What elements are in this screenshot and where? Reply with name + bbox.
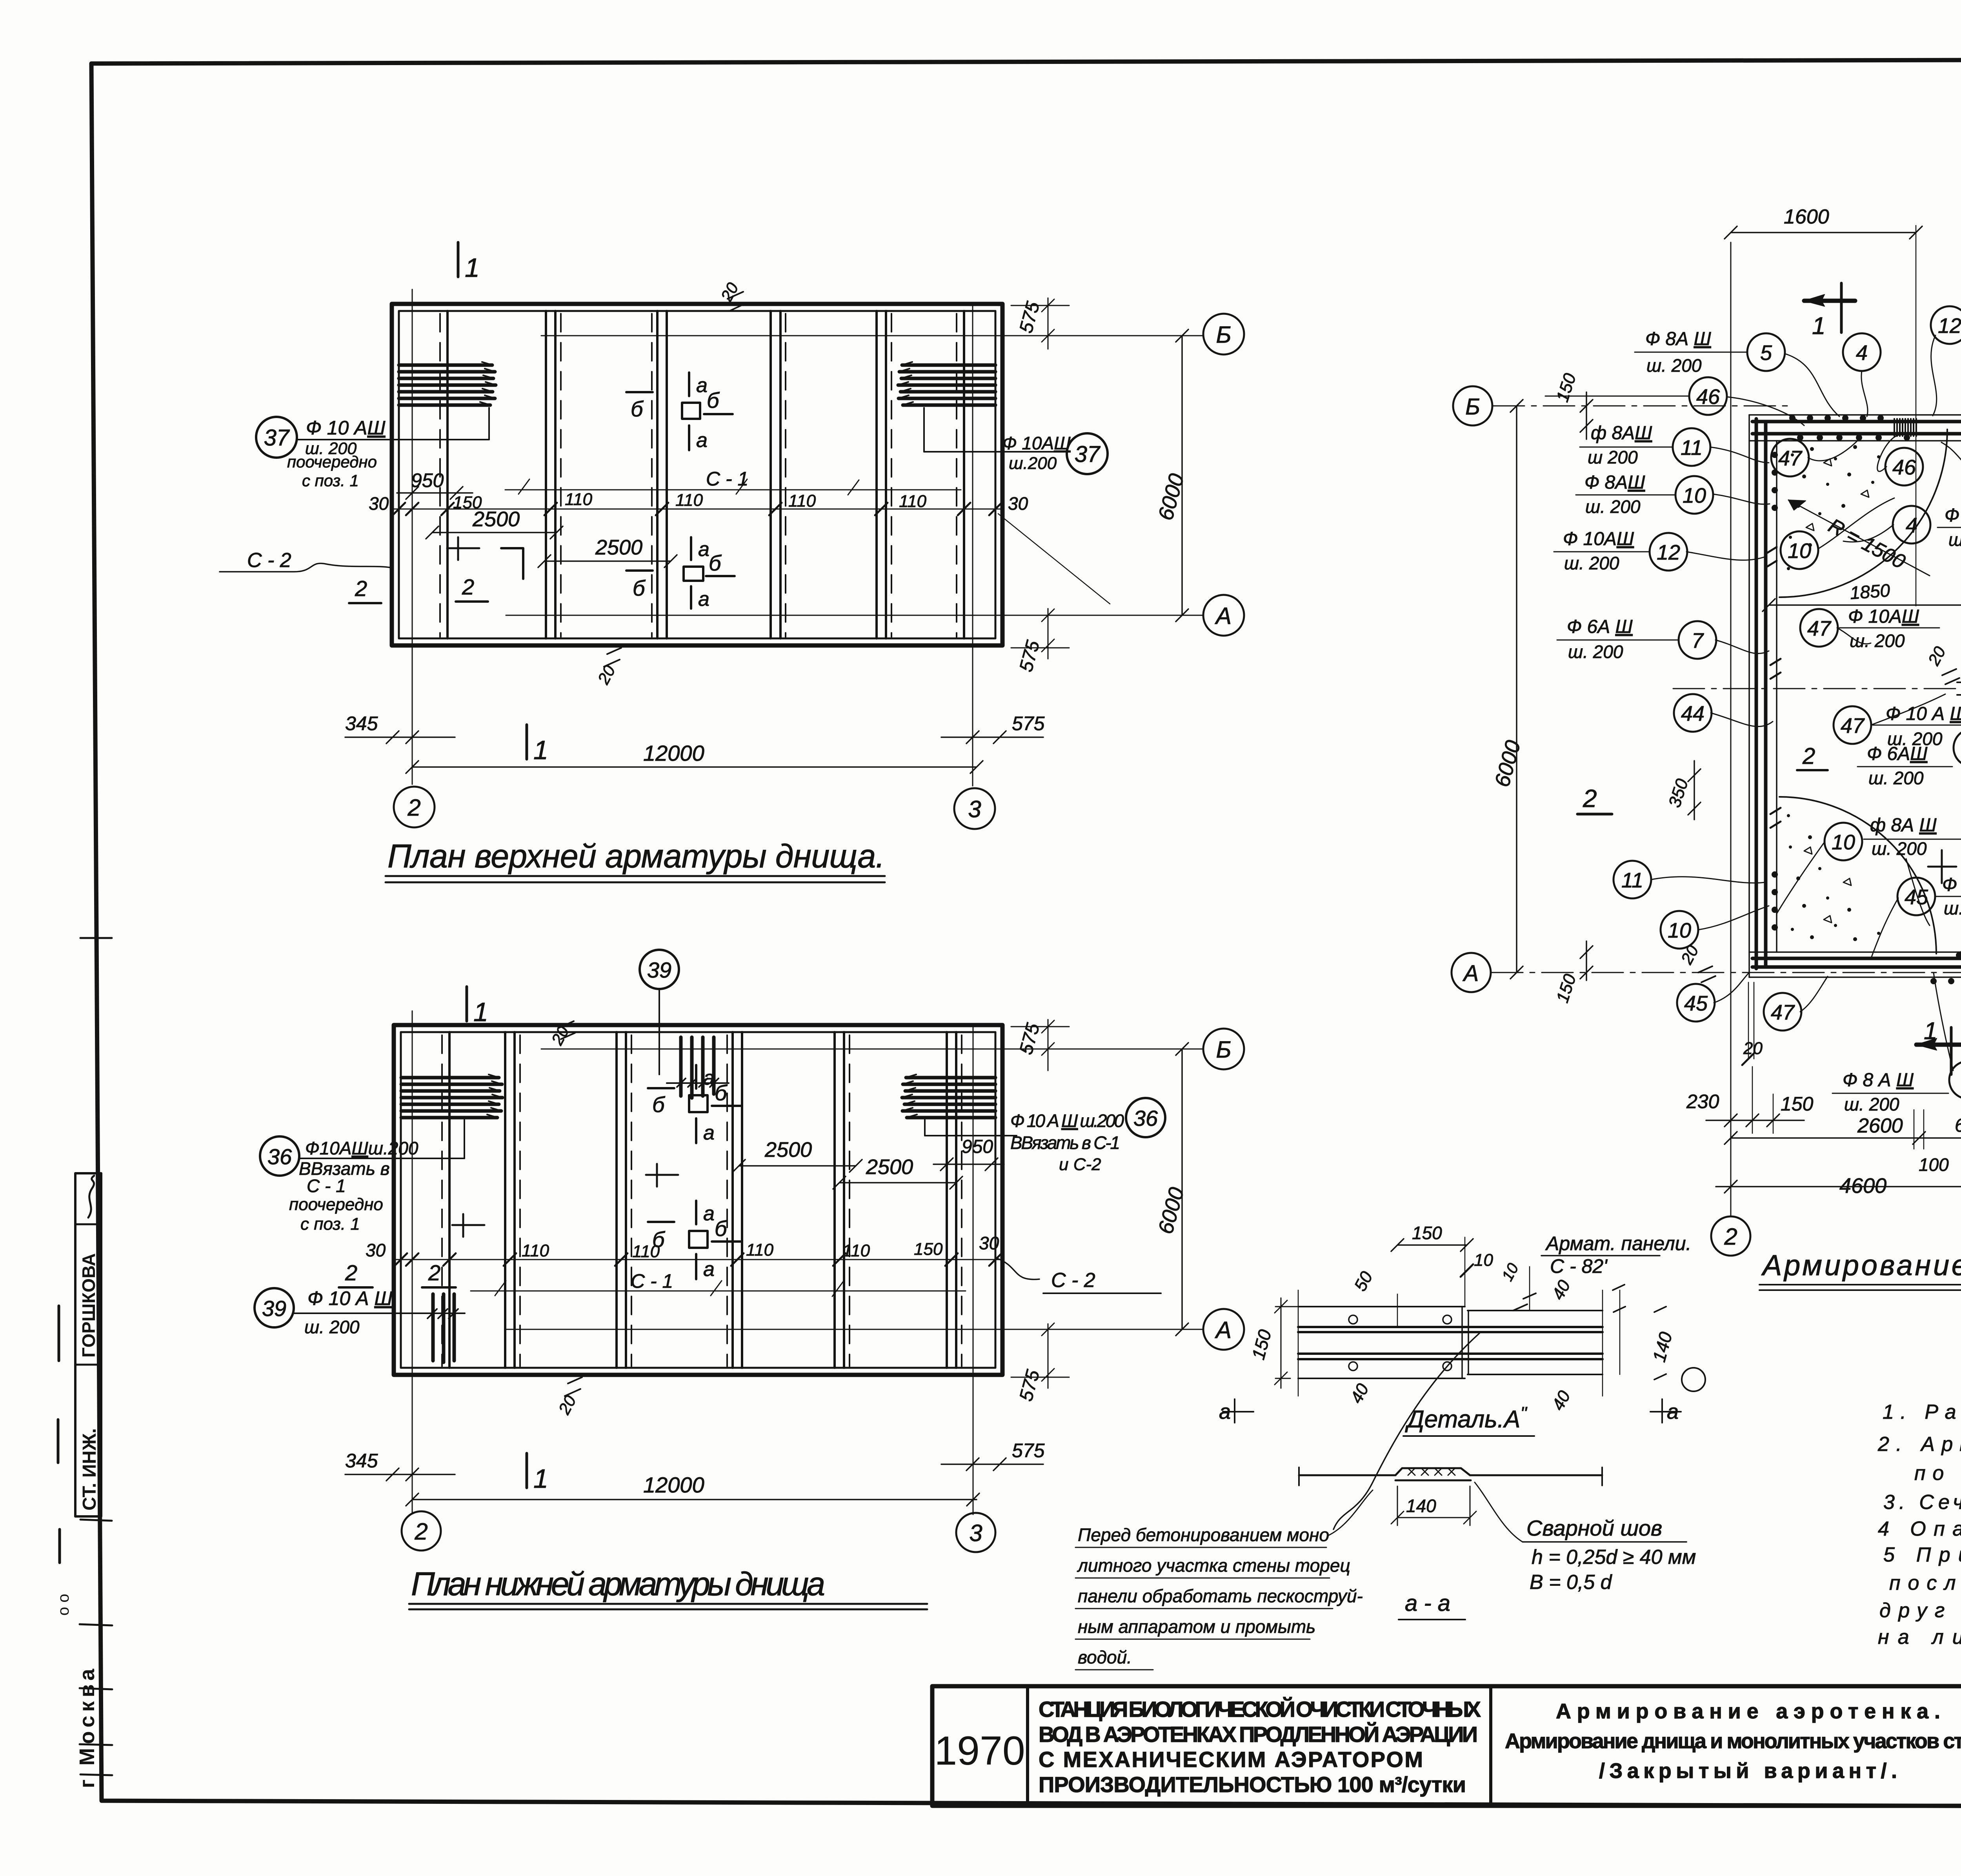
svg-text:150: 150 — [914, 1240, 943, 1259]
upper plan inner rect — [399, 311, 995, 638]
svg-text:600: 600 — [1955, 1115, 1961, 1136]
stipple triangles top — [1806, 459, 1869, 531]
svg-text:Б: Б — [1216, 1036, 1231, 1063]
svg-text:39: 39 — [647, 958, 671, 982]
svg-text:4: 4 — [1906, 514, 1917, 537]
a-a end ticks — [1299, 1467, 1602, 1485]
corner arc bottom — [1779, 797, 1936, 954]
axis A dashdot line corner — [1492, 972, 1961, 973]
svg-text:а: а — [698, 538, 709, 561]
svg-text:47: 47 — [1807, 617, 1832, 640]
border tick marks — [80, 937, 112, 939]
svg-text:950: 950 — [962, 1136, 993, 1157]
square symbol lower top — [689, 1095, 708, 1112]
callout circle 47 corner — [1771, 439, 1809, 476]
svg-text:4: 4 — [1856, 341, 1868, 365]
b marks around top square — [626, 391, 653, 393]
svg-text:7: 7 — [1692, 629, 1704, 653]
axis circle 3 upper — [954, 788, 995, 829]
svg-text:Ф 8АШ: Ф 8АШ — [1584, 472, 1645, 493]
svg-text:1: 1 — [533, 1464, 548, 1494]
svg-text:110: 110 — [899, 492, 927, 511]
title block outer — [932, 1686, 1961, 1806]
callout circle 39 left — [255, 1288, 294, 1327]
svg-text:110: 110 — [522, 1241, 549, 1260]
svg-text:ш 200: ш 200 — [1588, 447, 1638, 467]
svg-text:30: 30 — [979, 1233, 999, 1253]
stamp side marks — [58, 1306, 60, 1563]
bottom wall faces — [1749, 952, 1961, 977]
svg-text:С - 1: С - 1 — [631, 1270, 673, 1292]
callout circle 36 right — [1126, 1098, 1165, 1137]
svg-text:230: 230 — [1686, 1091, 1719, 1113]
leader 46 left — [1545, 396, 1689, 397]
svg-text:и С-2: и С-2 — [1059, 1155, 1101, 1174]
a-a seam bump — [1395, 1468, 1470, 1475]
small circle right detail — [1682, 1368, 1705, 1391]
axis circle B lower — [1203, 1029, 1244, 1069]
cross mark middle lower plan — [646, 1164, 678, 1187]
svg-text:46: 46 — [1696, 385, 1720, 409]
axis circle 2 upper — [394, 787, 435, 827]
panel joint verticals upper — [448, 311, 964, 638]
svg-text:А: А — [1215, 603, 1232, 629]
callout circle 7 left — [1679, 621, 1716, 659]
svg-text:12000: 12000 — [643, 741, 704, 765]
corner bracket symbol upper plan — [501, 548, 523, 579]
axis circle A lower — [1203, 1309, 1244, 1350]
callout circle 37 right — [1067, 433, 1108, 474]
svg-text:2: 2 — [428, 1260, 440, 1285]
callout circle 11 left — [1673, 428, 1710, 466]
cross mark above bottom wall — [1928, 850, 1956, 883]
axis A circle corner — [1452, 953, 1491, 992]
svg-text:Ф 8А Ш: Ф 8А Ш — [1645, 329, 1712, 349]
svg-text:ш. 200: ш. 200 — [1646, 355, 1702, 376]
R=1500 radial line — [1788, 500, 1930, 576]
svg-text:45: 45 — [1905, 885, 1928, 909]
axis circle 3 lower — [956, 1513, 995, 1552]
detail A witness lines — [1298, 1237, 1620, 1396]
stamp signature — [88, 1176, 94, 1218]
svg-text:Ф 6АШ: Ф 6АШ — [1867, 743, 1928, 764]
section mark 1 bottom upper plan — [526, 725, 528, 759]
svg-text:110: 110 — [746, 1240, 774, 1260]
callout circle 45 bottom left — [1677, 984, 1715, 1022]
axis 2 line lower — [412, 1011, 413, 1513]
svg-text:30: 30 — [369, 493, 389, 514]
svg-text:Ф 8 А Ш: Ф 8 А Ш — [1843, 1070, 1914, 1091]
dim chain upper plan — [394, 509, 1000, 510]
svg-text:Ф 8 А Ш: Ф 8 А Ш — [1945, 505, 1961, 526]
callout circle 44 left — [1674, 694, 1712, 732]
right hatch arrows — [898, 362, 913, 405]
lower plan outer rect — [394, 1025, 1002, 1375]
svg-text:Ф 6А Ш: Ф 6А Ш — [1567, 616, 1633, 637]
bottom-left bars group lower plan — [433, 1294, 454, 1362]
svg-text:2: 2 — [462, 574, 474, 599]
callout circle 46 inner — [1885, 448, 1923, 485]
svg-text:11: 11 — [1621, 869, 1643, 892]
svg-text:ГОРШКОВА: ГОРШКОВА — [78, 1253, 99, 1358]
callout circle 12 left — [1650, 533, 1687, 571]
b marks around lower-bottom square — [648, 1221, 674, 1223]
svg-text:3: 3 — [968, 796, 981, 822]
svg-text:/Закрытый вариант/.: /Закрытый вариант/. — [1599, 1759, 1897, 1783]
svg-text:СТ. ИНЖ.: СТ. ИНЖ. — [79, 1428, 100, 1511]
left hatch bars lower plan — [401, 1078, 502, 1118]
right hatch callout box lower — [925, 1120, 1017, 1136]
axis 3 line lower — [973, 1025, 974, 1514]
svg-text:а: а — [703, 1202, 715, 1225]
dim 1850 3130 — [1763, 599, 1961, 611]
dim 12000 lower — [406, 1493, 979, 1506]
b marks around bottom square — [626, 569, 653, 572]
section 2 mark inside lower plan — [452, 1214, 484, 1237]
svg-text:12: 12 — [1938, 314, 1961, 338]
svg-text:575: 575 — [1012, 713, 1045, 734]
leader 39 top — [659, 989, 660, 1074]
svg-text:2: 2 — [355, 576, 367, 601]
svg-text:В = 0,5 d: В = 0,5 d — [1530, 1571, 1613, 1594]
svg-text:110: 110 — [788, 491, 816, 511]
svg-text:2500: 2500 — [866, 1155, 913, 1179]
callout circle 47 c + text — [1834, 706, 1871, 744]
top bars ticks — [667, 1078, 729, 1087]
detail A small circles — [1349, 1315, 1357, 1324]
svg-text:ВОД В АЭРОТЕНКАХ ПРОДЛЕННОЙ АЭ: ВОД В АЭРОТЕНКАХ ПРОДЛЕННОЙ АЭРАЦИИ — [1039, 1722, 1478, 1747]
svg-text:А: А — [1215, 1317, 1232, 1343]
callout circle 10 bottom left — [1661, 911, 1698, 949]
svg-text:а: а — [696, 429, 708, 452]
leader 36 left — [299, 1158, 464, 1159]
left hatch callout box lower — [299, 1120, 464, 1158]
left hatch arrows lower — [487, 1074, 502, 1118]
svg-text:1850: 1850 — [1849, 580, 1891, 603]
svg-text:45: 45 — [1684, 992, 1708, 1015]
svg-text:37: 37 — [1075, 442, 1101, 467]
svg-text:б: б — [652, 1092, 666, 1117]
svg-text:11: 11 — [1681, 436, 1703, 460]
svg-text:а: а — [1219, 1400, 1231, 1423]
svg-text:30: 30 — [366, 1240, 386, 1260]
svg-text:С - 1: С - 1 — [706, 468, 748, 490]
svg-text:Ф 10АШ: Ф 10АШ — [1848, 606, 1919, 627]
callout circle 10 left — [1675, 476, 1713, 514]
bottom leaders corner plan — [1651, 843, 1961, 1071]
svg-text:б: б — [652, 1227, 666, 1252]
callout circle 47 bottom — [1764, 993, 1801, 1031]
svg-text:о о: о о — [55, 1594, 72, 1616]
svg-text:с поз. 1: с поз. 1 — [300, 1214, 360, 1234]
svg-text:1: 1 — [473, 997, 488, 1027]
axis circle 2 lower — [402, 1511, 441, 1551]
section arrow 1 top — [1804, 299, 1855, 303]
callout circle 10 inner — [1781, 531, 1818, 569]
svg-text:1: 1 — [1924, 1018, 1937, 1045]
callout circle 5 — [1747, 333, 1785, 371]
right hatch callout box — [924, 408, 1067, 452]
svg-text:46: 46 — [1892, 456, 1916, 479]
title block dividers — [1028, 1686, 1961, 1806]
svg-text:Ф 10 А Ш: Ф 10 А Ш — [1886, 703, 1961, 724]
section mark 1 top upper plan — [457, 242, 460, 277]
svg-text:План верхней арматуры днища.: План верхней арматуры днища. — [387, 838, 885, 874]
witness line right of 1600 — [1916, 225, 1917, 606]
svg-text:ш. 200: ш. 200 — [1844, 1094, 1899, 1114]
corner arc top — [1779, 429, 1947, 597]
svg-text:10: 10 — [1474, 1251, 1493, 1270]
svg-text:с поз. 1: с поз. 1 — [302, 471, 359, 490]
top middle bars group lower plan — [681, 1037, 714, 1098]
axis 2 line upper — [412, 289, 413, 784]
svg-text:ш.200: ш.200 — [1009, 454, 1057, 473]
svg-text:С - 2: С - 2 — [247, 549, 291, 572]
svg-text:30: 30 — [1008, 493, 1028, 514]
dim 6000 upper — [1176, 329, 1188, 622]
C-1 line lower — [471, 1281, 966, 1296]
top wall rebar dots row2 — [1797, 434, 1910, 441]
axis line B upper — [541, 335, 1203, 336]
a-a main line — [1299, 1474, 1602, 1476]
svg-text:Ф 10АШ: Ф 10АШ — [1942, 874, 1961, 895]
svg-text:СТАНЦИЯ БИОЛОГИЧЕСКОЙ ОЧИСТКИ: СТАНЦИЯ БИОЛОГИЧЕСКОЙ ОЧИСТКИ СТОЧНЫХ — [1039, 1697, 1481, 1721]
svg-text:а: а — [696, 374, 708, 397]
callout circle 4 bottom + text — [1949, 1061, 1961, 1099]
svg-text:2: 2 — [414, 1518, 427, 1545]
svg-text:1: 1 — [1812, 313, 1825, 340]
svg-text:Ф 10АШ: Ф 10АШ — [1563, 529, 1634, 549]
svg-text:ш. 200: ш. 200 — [304, 1317, 360, 1337]
svg-text:ВВязать в С-1: ВВязать в С-1 — [1010, 1133, 1120, 1153]
concrete stipple bottom corner — [1787, 814, 1880, 941]
callout circle 47 b + text — [1800, 609, 1838, 647]
axis 3 line upper — [972, 304, 973, 786]
svg-text:Б: Б — [1465, 394, 1480, 420]
svg-text:Перед бетонированием моно: Перед бетонированием моно — [1078, 1525, 1329, 1545]
dim 150 top detail — [1391, 1239, 1473, 1251]
dashed joint lines lower — [442, 1035, 962, 1366]
C-2 snake lower — [996, 1258, 1039, 1280]
svg-text:2500: 2500 — [472, 507, 520, 531]
svg-text:2500: 2500 — [764, 1138, 812, 1162]
bottom wall rebar dots row1 — [1956, 952, 1961, 958]
callout circle 39 top — [640, 950, 679, 989]
right hatch bars lower plan — [902, 1078, 995, 1118]
callout circle 11 bottom — [1614, 861, 1651, 898]
svg-text:10: 10 — [1788, 539, 1811, 563]
svg-text:а - а: а - а — [1405, 1591, 1450, 1616]
C-1 line upper — [505, 479, 961, 495]
svg-text:950: 950 — [411, 469, 444, 491]
svg-text:110: 110 — [675, 491, 703, 510]
svg-text:ш. 200: ш. 200 — [1850, 631, 1905, 651]
svg-text:1: 1 — [533, 735, 548, 765]
square symbol lower bottom — [689, 1231, 708, 1248]
svg-text:Ф 10 АШ: Ф 10 АШ — [306, 417, 386, 439]
svg-text:2: 2 — [1724, 1223, 1737, 1250]
svg-text:37: 37 — [264, 425, 290, 451]
svg-text:а: а — [703, 1122, 715, 1144]
svg-text:литного участка стены торец: литного участка стены торец — [1077, 1555, 1350, 1576]
left wall rebar dots — [1772, 452, 1778, 931]
svg-text:С - 2: С - 2 — [1051, 1269, 1095, 1292]
svg-text:10: 10 — [1683, 484, 1706, 507]
svg-text:Ф 10 А Ш: Ф 10 А Ш — [307, 1287, 393, 1309]
svg-text:2: 2 — [1583, 784, 1597, 813]
svg-text:36: 36 — [1133, 1106, 1158, 1131]
svg-text:140: 140 — [1406, 1496, 1436, 1516]
svg-text:Сварной шов: Сварной шов — [1526, 1516, 1662, 1540]
svg-text:б: б — [631, 396, 644, 421]
svg-text:г Москва: г Москва — [75, 1665, 99, 1788]
svg-text:4600: 4600 — [1839, 1174, 1886, 1198]
svg-text:575: 575 — [1012, 1440, 1045, 1462]
svg-text:Деталь.А": Деталь.А" — [1405, 1403, 1528, 1433]
svg-text:ПРОИЗВОДИТЕЛЬНОСТЬЮ 100 м³/сут: ПРОИЗВОДИТЕЛЬНОСТЬЮ 100 м³/сутки — [1039, 1772, 1466, 1797]
svg-text:2: 2 — [345, 1260, 357, 1285]
right hatch arrows lower — [902, 1074, 917, 1118]
detail A assembly outer lines — [1298, 1307, 1465, 1378]
callout circle 10 bottom mid + text — [1825, 823, 1862, 860]
square symbol upper bottom — [684, 567, 703, 581]
long S leader from detail — [1333, 1333, 1479, 1529]
section mark 1 top lower plan — [466, 987, 468, 1021]
callout circle 45 mid + text — [1897, 878, 1935, 915]
top wall bars — [1752, 422, 1961, 434]
callout circle 46 left — [1689, 377, 1727, 415]
axis circle 2 corner — [1711, 1216, 1750, 1256]
svg-text:110: 110 — [565, 490, 593, 509]
left wall bars — [1756, 419, 1766, 969]
svg-text:47: 47 — [1771, 1001, 1795, 1024]
callout circle 37 left — [256, 417, 297, 458]
svg-text:1970: 1970 — [934, 1728, 1025, 1774]
leader wiggles top callouts — [1686, 335, 1961, 751]
mid element dashdot axis — [1673, 688, 1961, 689]
witness verticals bottom dims — [1752, 1067, 1773, 1133]
bottom bars ticks — [427, 1309, 458, 1318]
svg-text:С - 82': С - 82' — [1550, 1255, 1608, 1277]
svg-text:План нижней арматуры днища: План нижней арматуры днища — [411, 1565, 825, 1602]
callout circle 8 b + text — [1954, 729, 1961, 767]
svg-text:С - 1: С - 1 — [307, 1176, 346, 1196]
svg-text:345: 345 — [345, 713, 378, 734]
svg-text:Б: Б — [1216, 322, 1231, 348]
panel joint verticals lower — [449, 1032, 956, 1368]
svg-text:1600: 1600 — [1784, 205, 1829, 228]
svg-text:ным аппаратом и промыть: ным аппаратом и промыть — [1078, 1616, 1315, 1637]
dim 1600 top — [1725, 226, 1922, 239]
upper plan outer rect — [392, 304, 1002, 645]
svg-text:1: 1 — [465, 253, 480, 283]
svg-text:б: б — [715, 1080, 728, 1105]
a section marks detail — [1223, 1399, 1253, 1423]
top wall rebar dots row1 — [1789, 415, 1884, 421]
svg-text:б: б — [707, 388, 720, 413]
svg-text:поочередно: поочередно — [287, 453, 377, 471]
left hatch bars upper plan — [399, 365, 496, 405]
svg-text:2600: 2600 — [1857, 1114, 1903, 1137]
svg-text:панели обработать пескоструй-: панели обработать пескоструй- — [1078, 1586, 1363, 1606]
svg-text:36: 36 — [267, 1144, 292, 1169]
dim 350 left — [1688, 761, 1701, 820]
detail A mid joint — [1462, 1307, 1468, 1378]
axis circle B upper — [1203, 314, 1244, 354]
weld x marks — [1408, 1468, 1455, 1475]
svg-text:39: 39 — [262, 1296, 286, 1321]
svg-text:ш. 200: ш. 200 — [1585, 496, 1641, 517]
mid element PK1-24-1 lines — [1957, 682, 1961, 695]
leader svarnoy — [1475, 1482, 1523, 1542]
left wall faces — [1749, 415, 1777, 977]
section mark 1 bottom lower plan — [526, 1453, 528, 1488]
section 2 mark inside upper plan — [447, 537, 479, 560]
svg-text:ш. 200: ш. 200 — [1944, 898, 1961, 918]
svg-text:47: 47 — [1778, 447, 1803, 470]
right hatch bars upper plan — [898, 365, 995, 405]
axis B dashdot line corner — [1493, 405, 1788, 407]
svg-text:ш. 200: ш. 200 — [1868, 768, 1924, 788]
concrete stipple top corner — [1787, 445, 1880, 570]
svg-text:12000: 12000 — [643, 1472, 704, 1497]
svg-text:2: 2 — [407, 794, 420, 821]
svg-text:а: а — [698, 588, 709, 611]
left wall arrow ticks — [1766, 547, 1781, 828]
svg-text:Ф 10 А Ш ш.200: Ф 10 А Ш ш.200 — [1010, 1111, 1124, 1131]
svg-text:47: 47 — [1841, 714, 1865, 738]
axis line A lower — [506, 1329, 1203, 1330]
svg-text:б: б — [709, 551, 722, 575]
20 label bottom wall left — [1748, 982, 1754, 1059]
top wall panel hatch — [1894, 419, 1916, 436]
svg-text:100: 100 — [1919, 1154, 1949, 1175]
leader from note to weld — [1328, 1490, 1373, 1536]
svg-text:110: 110 — [842, 1241, 870, 1260]
callout circle 12 top — [1931, 306, 1961, 344]
square symbol upper top — [682, 403, 700, 419]
axis 2 vertical corner plan — [1730, 242, 1732, 1216]
svg-text:10: 10 — [1668, 919, 1691, 942]
svg-text:ш. 200: ш. 200 — [1568, 642, 1623, 662]
svg-text:5: 5 — [1760, 341, 1772, 365]
stamp box left edge — [75, 1173, 101, 1516]
bottom wall bars — [1752, 958, 1961, 967]
dashed joint lines upper — [440, 314, 957, 637]
svg-text:а: а — [1667, 1400, 1679, 1423]
dim 4600 — [1716, 1180, 1961, 1193]
svg-text:20: 20 — [1743, 1039, 1763, 1058]
svg-text:ф 8АШ: ф 8АШ — [1591, 423, 1652, 444]
svg-text:Армат. панели.: Армат. панели. — [1545, 1232, 1691, 1254]
bottom wall rebar dots row2 — [1930, 978, 1961, 984]
svg-text:12: 12 — [1657, 541, 1680, 564]
svg-text:ш. 200: ш. 200 — [1872, 838, 1927, 859]
section arrow 1 bottom — [1916, 1043, 1961, 1047]
leader from 30 tick — [998, 514, 1110, 604]
svg-text:150: 150 — [1781, 1093, 1814, 1115]
stipple triangles bottom — [1804, 847, 1851, 923]
svg-text:Армирование днища и монолит: Армирование днища и монолитных участков … — [1505, 1729, 1961, 1753]
callout circle 36 left — [260, 1136, 299, 1176]
top wall faces — [1749, 415, 1961, 441]
svg-text:водой.: водой. — [1078, 1647, 1132, 1667]
callout circle 4 top — [1843, 333, 1881, 371]
svg-text:150: 150 — [1412, 1223, 1442, 1243]
svg-text:Ф10АШш.200: Ф10АШш.200 — [305, 1138, 418, 1158]
svg-text:10: 10 — [1832, 831, 1855, 854]
lower plan inner rect — [401, 1032, 995, 1368]
